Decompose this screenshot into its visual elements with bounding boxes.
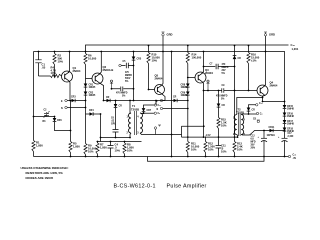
capacitor C11 xyxy=(216,137,227,157)
capacitor C5 xyxy=(119,61,134,83)
terminal GRD2 xyxy=(264,32,275,52)
diode CR17 chain xyxy=(283,116,295,126)
capacitor C17 xyxy=(278,131,294,156)
diode CR9 xyxy=(181,87,190,108)
wire Q2 collector riser xyxy=(100,52,102,75)
wire Q1 collector xyxy=(68,52,71,73)
transistor Q4 xyxy=(257,81,278,97)
wire Q3 emitter xyxy=(203,82,204,91)
wire main top bus B1 xyxy=(34,51,266,53)
diode CR5 xyxy=(132,52,142,101)
diode CR12 xyxy=(173,97,188,103)
svg-text:CR4: CR4 xyxy=(89,109,94,112)
capacitor C12 xyxy=(251,131,268,157)
resistor R1 xyxy=(32,141,43,157)
svg-text:500V: 500V xyxy=(125,78,131,80)
svg-text:Pulse Amplifier: Pulse Amplifier xyxy=(167,184,207,190)
svg-text:MMFD: MMFD xyxy=(125,75,132,77)
wire left rail xyxy=(33,52,35,141)
wire mid rail x171 xyxy=(171,52,173,157)
resistor R4 xyxy=(51,66,62,78)
transistor Q1 xyxy=(62,66,81,82)
transistor Q3 xyxy=(195,68,213,83)
svg-text:20V: 20V xyxy=(222,70,227,72)
svg-text:CR5: CR5 xyxy=(137,59,142,61)
svg-text:35V: 35V xyxy=(251,145,256,147)
diode CR1 xyxy=(84,79,96,90)
terminal J3 xyxy=(157,99,174,103)
resistor R13 xyxy=(233,91,243,157)
svg-text:CR6: CR6 xyxy=(57,120,62,122)
resistor R12 xyxy=(204,91,216,157)
resistor R11 xyxy=(186,137,200,156)
svg-text:1N988: 1N988 xyxy=(181,87,188,89)
resistor R14 xyxy=(186,46,202,78)
terminal E3 xyxy=(154,125,161,135)
svg-text:T203B: T203B xyxy=(131,107,139,111)
svg-text:10%: 10% xyxy=(88,150,94,154)
capacitor C9 series xyxy=(216,85,228,101)
svg-text:C₁₁: C₁₁ xyxy=(158,105,162,107)
svg-text:1N645: 1N645 xyxy=(89,94,96,97)
diode CR18 chain xyxy=(283,124,295,134)
wire Q4 emitter xyxy=(237,95,285,115)
svg-text:1N645: 1N645 xyxy=(89,86,96,89)
svg-text:MFD: MFD xyxy=(251,142,256,144)
svg-text:10%: 10% xyxy=(51,71,57,75)
diode CR3 xyxy=(71,97,86,103)
terminal -3V xyxy=(285,155,297,161)
wire Q1 emitter xyxy=(69,81,71,101)
resistor R9 xyxy=(84,114,97,157)
svg-text:470 MMFD: 470 MMFD xyxy=(216,95,228,98)
svg-text:100,000: 100,000 xyxy=(192,56,202,60)
svg-text:UNLESS OTHERWISE INDICATED:: UNLESS OTHERWISE INDICATED: xyxy=(21,166,69,170)
wire T1 primary top feed xyxy=(130,101,131,114)
svg-text:10%: 10% xyxy=(58,60,64,64)
svg-text:CR11: CR11 xyxy=(269,127,275,129)
svg-text:2,400: 2,400 xyxy=(288,135,294,138)
transformer T1 xyxy=(127,104,143,135)
capacitor C6 xyxy=(111,108,119,138)
svg-text:10%: 10% xyxy=(152,59,158,63)
svg-text:2N404-B: 2N404-B xyxy=(103,68,114,72)
svg-text:10%: 10% xyxy=(127,149,133,153)
svg-text:10%: 10% xyxy=(237,148,243,152)
test point TP2 xyxy=(206,80,209,91)
svg-text:470 MMFD: 470 MMFD xyxy=(116,92,128,95)
diode CR10 xyxy=(233,46,241,91)
diode CR16 chain xyxy=(283,109,295,119)
terminal E4 xyxy=(256,103,263,106)
wire emitter row y99 xyxy=(104,100,166,102)
wire lower row y136 xyxy=(182,109,238,138)
wire T1 primary bottom xyxy=(130,133,131,138)
wire Q2 emitter xyxy=(100,83,104,101)
resistor R6 xyxy=(84,52,97,79)
terminal E1 xyxy=(154,101,161,108)
svg-text:CR: CR xyxy=(106,97,110,99)
terminal E5 tap xyxy=(249,112,263,115)
resistor R8 xyxy=(123,142,134,157)
diode CR11 xyxy=(267,127,276,137)
svg-text:10%: 10% xyxy=(208,148,214,152)
wire Q5 base xyxy=(149,89,155,91)
terminal E6 xyxy=(253,119,260,123)
wire upper bus B2 xyxy=(86,45,289,52)
wire base row y90 xyxy=(204,90,258,92)
wire Q5 emitter xyxy=(156,94,165,105)
svg-text:1N648: 1N648 xyxy=(287,123,294,126)
diode CR7 xyxy=(140,105,154,114)
terminal E2 tap xyxy=(144,112,161,115)
diode CR8 xyxy=(181,78,190,90)
wire bus return loop xyxy=(148,157,265,162)
diode CR14 xyxy=(241,105,255,115)
svg-text:20%: 20% xyxy=(251,148,256,150)
resistor R15 xyxy=(217,107,227,136)
svg-text:B-CS-W612-0-1: B-CS-W612-0-1 xyxy=(114,184,156,190)
svg-text:1N988: 1N988 xyxy=(181,95,188,97)
wire Q4 collector to GRD xyxy=(265,52,266,87)
svg-text:CR: CR xyxy=(238,58,242,60)
svg-text:CR: CR xyxy=(222,105,226,107)
diode CR4 row xyxy=(86,109,101,142)
svg-text:1,800: 1,800 xyxy=(36,144,43,148)
capacitor C4 xyxy=(108,142,121,157)
svg-text:GPL: GPL xyxy=(111,124,116,126)
svg-text:10%: 10% xyxy=(221,124,227,128)
wire base row y75 xyxy=(39,75,51,77)
svg-text:1,201: 1,201 xyxy=(292,47,299,51)
svg-text:±1%: ±1% xyxy=(251,59,257,63)
wire Q2 base xyxy=(86,78,93,80)
diode CR6 mid xyxy=(53,117,71,131)
svg-text:5%: 5% xyxy=(222,73,225,75)
notes text xyxy=(21,166,69,180)
terminal GRD1 xyxy=(162,32,173,52)
svg-text:2N404: 2N404 xyxy=(205,71,213,75)
wire Q5 collector xyxy=(161,52,163,86)
resistor R2 xyxy=(53,52,64,77)
svg-text:C17: C17 xyxy=(288,133,293,135)
svg-text:MMFD: MMFD xyxy=(222,67,229,69)
svg-text:C₁₂: C₁₂ xyxy=(259,103,263,105)
svg-text:DIODES ARE 1N645: DIODES ARE 1N645 xyxy=(26,176,54,180)
wire GRD stub to diode chain xyxy=(266,52,285,102)
capacitor C3 coupling xyxy=(112,87,134,98)
title xyxy=(114,184,207,190)
svg-text:CR: CR xyxy=(173,97,177,99)
resistor R10 xyxy=(147,46,160,90)
wire bottom bus B3 xyxy=(34,156,285,158)
svg-text:1,800: 1,800 xyxy=(100,146,107,150)
svg-text:-1.5V: -1.5V xyxy=(205,135,211,137)
test point TP1 xyxy=(110,80,113,89)
svg-text:10,000: 10,000 xyxy=(88,57,97,61)
svg-text:CR3: CR3 xyxy=(71,97,76,99)
svg-text:10%: 10% xyxy=(115,149,121,153)
node C output label xyxy=(291,43,299,51)
svg-text:C12: C12 xyxy=(251,136,256,138)
wire mid row y116 xyxy=(34,116,55,118)
diode CR13 x218 xyxy=(217,91,225,108)
capacitor C7 xyxy=(204,63,235,75)
diode CR?e xyxy=(106,97,110,102)
transformer T2 xyxy=(233,108,246,137)
svg-text:2N404: 2N404 xyxy=(155,77,163,81)
svg-text:RESISTORS ARE 1/2W, 5%: RESISTORS ARE 1/2W, 5% xyxy=(26,171,64,175)
trimmer capacitor C2 xyxy=(43,110,50,124)
wire Q3 base xyxy=(188,77,195,79)
svg-text:GRD: GRD xyxy=(269,33,275,37)
wire T2 primary bottom xyxy=(236,135,239,138)
svg-text:CR: CR xyxy=(119,106,123,108)
svg-text:1N648: 1N648 xyxy=(287,108,294,111)
wire T1 secondary bottom out xyxy=(140,133,182,135)
resistor R7 xyxy=(96,142,107,157)
resistor R5 xyxy=(69,101,80,157)
svg-text:.05: .05 xyxy=(42,66,46,70)
terminal J1 input xyxy=(61,99,72,103)
svg-text:CR: CR xyxy=(252,110,256,112)
diode CR2 xyxy=(84,87,96,114)
svg-text:1,800: 1,800 xyxy=(73,145,80,149)
wire lower row y137 xyxy=(101,137,131,139)
transistor Q2 xyxy=(92,65,113,84)
svg-text:GRD: GRD xyxy=(167,33,173,37)
svg-text:1N648: 1N648 xyxy=(287,115,294,118)
svg-text:2N404: 2N404 xyxy=(270,84,278,88)
transistor Q5 xyxy=(155,74,165,95)
svg-text:5%: 5% xyxy=(122,96,125,98)
resistor R16 xyxy=(247,46,260,91)
svg-text:CR7: CR7 xyxy=(147,110,152,112)
svg-text:5%: 5% xyxy=(221,99,224,101)
wire Q3 collector xyxy=(203,52,204,74)
svg-text:1N752A: 1N752A xyxy=(267,134,276,137)
diode CR? x115 xyxy=(114,101,122,108)
diode CR15 chain xyxy=(283,102,295,111)
wire y126 link xyxy=(182,126,204,137)
wire lower row y141 xyxy=(97,141,142,143)
terminal J2 input xyxy=(61,106,86,110)
capacitor C1 xyxy=(35,52,45,77)
svg-text:10%: 10% xyxy=(221,150,227,154)
svg-text:10%: 10% xyxy=(191,148,197,152)
svg-text:2N404: 2N404 xyxy=(73,69,81,73)
svg-text:C₁₈: C₁₈ xyxy=(293,155,297,157)
svg-text:-3V: -3V xyxy=(293,158,297,160)
svg-text:C₁₅: C₁₅ xyxy=(291,43,296,47)
svg-text:C₉: C₉ xyxy=(260,114,263,116)
wire T2 secondary bottom row y130 xyxy=(241,131,284,136)
svg-text:5%: 5% xyxy=(125,81,128,83)
svg-text:C₉: C₉ xyxy=(158,113,161,115)
terminal J4 xyxy=(157,107,188,111)
